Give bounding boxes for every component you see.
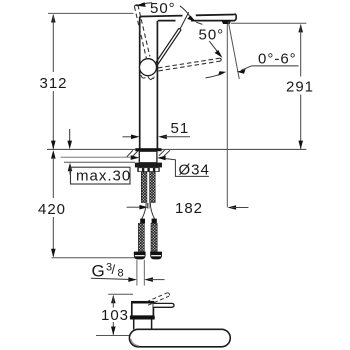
svg-text:51: 51 [171, 120, 190, 137]
lever axis line to vertex [180, 12, 189, 29]
node 420 dimension [51, 150, 56, 257]
node 312 dimension [51, 14, 56, 149]
angle 50 arc (upper) [136, 3, 152, 6]
label G3/8 with leader [91, 278, 130, 279]
hose top fitting left [140, 219, 145, 224]
mounting nut [135, 163, 162, 168]
svg-text:420: 420 [38, 201, 66, 218]
svg-text:182: 182 [175, 200, 203, 217]
svg-text:Ø34: Ø34 [179, 162, 210, 179]
spout outlet vertical line [226, 24, 228, 207]
spout top line [141, 15, 183, 18]
hose end fitting left [134, 252, 146, 260]
label 0-6 deg leader [241, 66, 251, 70]
hose top fitting right [152, 219, 157, 224]
svg-text:50°: 50° [199, 27, 225, 44]
mousseur (black outlet) [222, 20, 232, 24]
faucet column left edge [140, 17, 142, 19]
node max.30 annotation [67, 129, 72, 175]
side view body block [132, 302, 154, 316]
tilt angle arc [206, 73, 224, 78]
svg-text:312: 312 [40, 75, 68, 92]
G3/8 dimension arrows [128, 277, 153, 282]
threaded stud right [150, 172, 156, 203]
lever (solid position) [155, 28, 181, 65]
node 51 dimension [123, 135, 191, 140]
svg-text:G: G [92, 262, 106, 281]
label max.30 box [71, 167, 131, 184]
spout tilt line [228, 22, 239, 80]
lever (dashed right position) [158, 58, 221, 71]
deck hatching left [127, 150, 133, 157]
svg-text:max.30: max.30 [76, 168, 131, 185]
base flange [135, 148, 161, 151]
svg-text:50°: 50° [150, 0, 176, 17]
side view: 103 bottom extension line [96, 335, 132, 337]
node 103 dimension [111, 295, 116, 335]
G3/8 extension lines [136, 260, 138, 286]
side view spout (stadium) [129, 329, 230, 347]
svg-text:8: 8 [118, 268, 125, 280]
svg-text:0°-6°: 0°-6° [258, 51, 297, 68]
stadium inner wall arc [131, 339, 139, 346]
lever (dashed up position) [134, 5, 150, 58]
side view lower column [133, 320, 135, 330]
hose neck right [150, 203, 154, 219]
diameter 34 arrows [131, 155, 140, 160]
ball joint [140, 59, 157, 76]
side view lever dashed (raised) [147, 293, 170, 305]
diameter 34 leader [166, 159, 209, 177]
side view lever pin (horizontal) [153, 303, 174, 307]
spout bottom line [158, 20, 176, 22]
side view: 103 top extension line [108, 293, 133, 295]
svg-text:/: / [112, 262, 117, 277]
deck bottom line left [61, 156, 131, 158]
faucet column right edge [156, 21, 158, 149]
wire: max.30 lower reference line [64, 161, 135, 163]
spout right end cap [234, 14, 236, 21]
castellated nut [137, 167, 159, 172]
node 182 dimension [127, 205, 249, 210]
svg-text:291: 291 [286, 79, 314, 96]
shank through deck [139, 151, 157, 163]
hose right [151, 223, 157, 251]
deck hatching right [159, 150, 165, 156]
threaded stud left [141, 172, 147, 203]
ball socket arc right [148, 76, 154, 79]
wire: 312 top extension line [48, 12, 134, 14]
node 291 dimension [298, 24, 303, 149]
hose end fitting right [150, 252, 162, 260]
hose left [138, 223, 144, 251]
ball socket arc left [141, 75, 146, 78]
wire: 291 top extension line [231, 22, 306, 24]
angle 50 leader (lower) [209, 41, 219, 54]
side view flange [130, 316, 155, 320]
deck top line [47, 148, 135, 150]
hose neck left [142, 203, 147, 219]
wire: hose-end extension line [52, 257, 136, 259]
svg-text:103: 103 [101, 307, 129, 324]
